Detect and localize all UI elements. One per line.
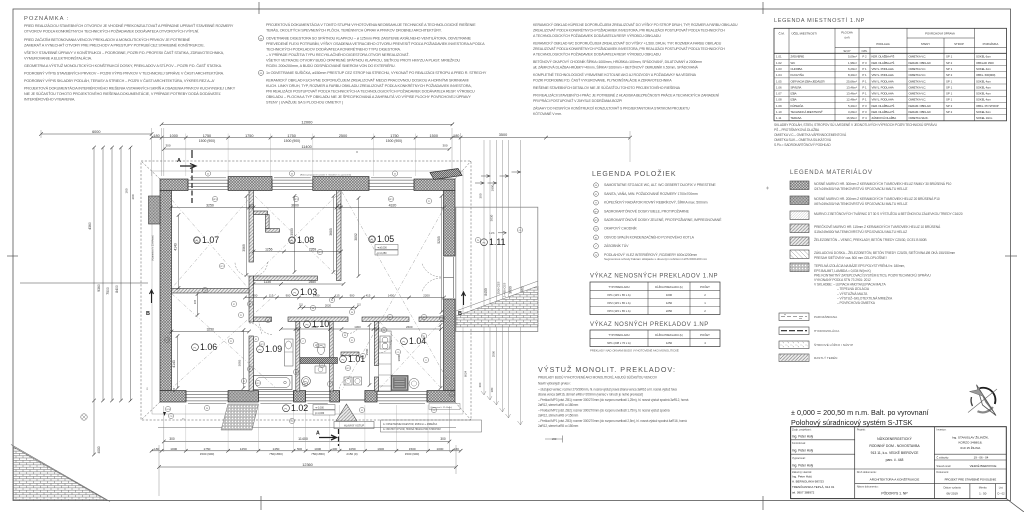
svg-text:300: 300 [165, 143, 170, 147]
svg-text:1250: 1250 [666, 341, 673, 345]
svg-text:3030: 3030 [490, 214, 494, 221]
svg-text:1500 (900): 1500 (900) [284, 139, 300, 143]
svg-text:11400: 11400 [301, 145, 311, 149]
svg-text:P1: P1 [240, 315, 242, 317]
svg-text:2500 CES: 2500 CES [497, 281, 501, 294]
svg-text:PRI REALIZÁCII STAVEBNÝCH PRÁ: PRI REALIZÁCII STAVEBNÝCH PRÁC JE POTREB… [533, 93, 719, 98]
svg-text:D4: D4 [207, 173, 209, 175]
svg-text:D4: D4 [394, 173, 396, 175]
svg-text:4360: 4360 [88, 222, 92, 230]
svg-text:9360: 9360 [97, 284, 101, 292]
svg-text:OMIETKA SILIK.: OMIETKA SILIK. [909, 116, 929, 120]
svg-text:strana venca 3øR16, strmeň øR8: strana venca 3øR16, strmeň øR8 o=200mm (… [538, 393, 643, 397]
svg-text:1050: 1050 [349, 447, 356, 451]
svg-text:115: 115 [193, 299, 197, 304]
svg-text:STENY: STENY [921, 42, 930, 46]
svg-text:D4: D4 [595, 185, 597, 187]
svg-text:D6: D6 [331, 300, 333, 302]
svg-text:2250: 2250 [666, 309, 673, 313]
svg-text:K1: K1 [304, 384, 306, 386]
svg-text:12360: 12360 [302, 463, 313, 467]
svg-text:ZÁDVERIE: ZÁDVERIE [791, 55, 805, 59]
svg-text:OMIETKA V.C.: OMIETKA V.C. [909, 85, 927, 89]
svg-text:3500: 3500 [365, 348, 369, 355]
svg-text:D7: D7 [233, 304, 235, 306]
svg-text:SP 1: SP 1 [946, 98, 953, 102]
svg-text:ZÁKLADOVÁ DOSKA – ŽELEZOBETÓN,: ZÁKLADOVÁ DOSKA – ŽELEZOBETÓN, BETÓN TRI… [814, 250, 955, 255]
svg-text:Projekt:: Projekt: [857, 428, 866, 432]
svg-text:SADROKARTÓNOVÉ DOSKY BIELE, PR: SADROKARTÓNOVÉ DOSKY BIELE, PROTIPOŽIARN… [604, 208, 690, 213]
svg-text:3802: 3802 [354, 233, 358, 241]
svg-text:1.11: 1.11 [489, 237, 506, 247]
svg-text:4000: 4000 [97, 446, 101, 453]
svg-text:ZÁMKOVÁ DLAŽBA: ZÁMKOVÁ DLAŽBA [872, 115, 897, 120]
svg-text:K1: K1 [595, 237, 597, 239]
svg-text:25,66m²: 25,66m² [846, 79, 857, 83]
svg-text:OKAPOVÝ CHODNÍK: OKAPOVÝ CHODNÍK [604, 227, 637, 231]
svg-text:D1: D1 [351, 340, 353, 342]
svg-text:TEPELNÁ IZOLÁCIA NA BÁZE EPS P: TEPELNÁ IZOLÁCIA NA BÁZE EPS POLYSTYRÉNU… [814, 263, 905, 268]
svg-text:16,96m²: 16,96m² [846, 116, 857, 120]
svg-text:B: B [146, 311, 150, 317]
svg-text:ZREALIZOVAŤ PODĽA KONKRÉTNYCH: ZREALIZOVAŤ PODĽA KONKRÉTNYCH POŽIADAVIE… [533, 46, 725, 51]
svg-text:Ing. Peter Holý: Ing. Peter Holý [792, 475, 812, 479]
svg-text:1135: 1135 [264, 280, 271, 284]
svg-text:P1: P1 [291, 240, 293, 242]
svg-text:TYP PREKLADU: TYP PREKLADU [608, 333, 629, 337]
svg-text:parc. č. 448: parc. č. 448 [886, 458, 904, 462]
svg-text:SP2: SP2 [318, 252, 321, 254]
svg-text:180: 180 [154, 447, 159, 451]
svg-text:1250: 1250 [240, 447, 247, 451]
svg-text:7500: 7500 [106, 287, 110, 295]
svg-text:2500: 2500 [491, 350, 495, 357]
svg-text:P 3: P 3 [862, 110, 867, 114]
svg-text:Ing. STANISLAV ŽILINČÍK,: Ing. STANISLAV ŽILINČÍK, [952, 434, 989, 439]
svg-text:1.06: 1.06 [776, 85, 782, 89]
svg-text:115: 115 [269, 294, 274, 298]
svg-text:SKLADBY PODLÁH, STIEN, STROPOV: SKLADBY PODLÁH, STIEN, STROPOV SÚ UVEDEN… [774, 122, 938, 127]
svg-text:P1: P1 [196, 240, 198, 242]
svg-text:PŠ – PROTIŠMYKOVÁ DLAŽBA: PŠ – PROTIŠMYKOVÁ DLAŽBA [774, 127, 820, 132]
svg-text:NOSNÉ MURIVO HR. 200mm Z KERAM: NOSNÉ MURIVO HR. 200mm Z KERAMICKÝCH TVA… [814, 196, 940, 201]
svg-text:ROZM. 200x200mm, A BUDÚ ODSPÁD: ROZM. 200x200mm, A BUDÚ ODSPÁDOVANÉ SMER… [266, 63, 396, 68]
svg-text:VŠETKY VETRACIE OTVORY BUDÚ OP: VŠETKY VETRACIE OTVORY BUDÚ OPATRENÉ SPÄ… [266, 58, 460, 63]
svg-text:5285: 5285 [437, 236, 441, 244]
svg-text:OMIETKA V.C.: OMIETKA V.C. [909, 98, 927, 102]
svg-text:PRIEČKOVÉ MURIVO HR. 115mm Z K: PRIEČKOVÉ MURIVO HR. 115mm Z KERAMICKÝCH… [814, 224, 941, 229]
svg-text:1.08: 1.08 [297, 235, 314, 245]
svg-text:p=-0,250: p=-0,250 [377, 252, 387, 255]
svg-text:ŠTRKOVÉ LÔŽKO / NÁSYP: ŠTRKOVÉ LÔŽKO / NÁSYP [814, 342, 853, 347]
svg-text:LEGENDA POLOŽIEK: LEGENDA POLOŽIEK [592, 169, 676, 178]
svg-text:(Rebrá prepojené kanálmi fr. 3: (Rebrá prepojené kanálmi fr. 33-64mm na … [300, 174, 351, 177]
svg-text:VYKONANÝ PODĽA STN 73 2901: 20: VYKONANÝ PODĽA STN 73 2901: 2012 [814, 278, 871, 282]
svg-text:SP 1: SP 1 [946, 55, 953, 59]
svg-text:POVRCHOVÁ ÚPRAVA: POVRCHOVÁ ÚPRAVA [925, 31, 955, 36]
svg-text:ARCHITEKTÚRA A KONŠTRUKCIE: ARCHITEKTÚRA A KONŠTRUKCIE [870, 476, 920, 481]
svg-text:OMIETKA V.C.: OMIETKA V.C. [909, 67, 927, 71]
svg-text:3083: 3083 [238, 359, 242, 366]
svg-text:1500: 1500 [430, 134, 438, 138]
svg-text:A: A [316, 431, 320, 437]
svg-text:1300: 1300 [377, 447, 384, 451]
svg-text:NÍZKOENERGETICKÝ: NÍZKOENERGETICKÝ [877, 437, 912, 441]
svg-text:Ing. Peter Holý: Ing. Peter Holý [792, 449, 813, 453]
svg-text:1.02: 1.02 [291, 403, 308, 413]
svg-text:6,29m²: 6,29m² [848, 67, 857, 71]
svg-text:P 1: P 1 [862, 79, 867, 83]
svg-text:3069: 3069 [242, 244, 246, 252]
svg-text:PRESAH SIEŤOVINY cca. 500 mm C: PRESAH SIEŤOVINY cca. 500 mm CELOPLOŠNE … [814, 255, 887, 260]
svg-text:P1: P1 [428, 201, 430, 203]
svg-text:SP1: SP1 [594, 211, 598, 213]
svg-text:2øR12, strmeň øR8 o=150mm: 2øR12, strmeň øR8 o=150mm [538, 424, 579, 428]
svg-text:– V PRÍPADE POUŽITIA TYPU RECY: – V PRÍPADE POUŽITIA TYPU RECYKLAČNÉHO D… [266, 52, 410, 57]
svg-text:ÚČEL MIESTNOSTI: ÚČEL MIESTNOSTI [792, 31, 817, 36]
svg-text:Polohový súradnicový systém S: Polohový súradnicový systém S-JTSK [791, 418, 913, 427]
svg-text:SP 1: SP 1 [946, 67, 953, 71]
svg-text:S.P.k.= SADROKARTÓNOVÝ PODHĽAD: S.P.k.= SADROKARTÓNOVÝ PODHĽAD [774, 142, 831, 147]
svg-text:POČET: POČET [700, 284, 710, 289]
svg-text:K1: K1 [315, 345, 317, 347]
svg-text:IZBA: IZBA [791, 98, 797, 102]
svg-text:2150 (0): 2150 (0) [346, 452, 357, 456]
svg-text:Dokument:: Dokument: [936, 470, 949, 474]
svg-text:SPÁLŇA: SPÁLŇA [791, 85, 802, 89]
svg-text:SAMOSTATNE STOJACE WC, ALT. WC: SAMOSTATNE STOJACE WC, ALT. WC GEBERIT D… [604, 183, 716, 187]
svg-text:3500: 3500 [499, 133, 507, 137]
svg-text:750(1650): 750(1650) [269, 452, 283, 456]
svg-text:P 1: P 1 [862, 67, 867, 71]
svg-text:750(1650): 750(1650) [311, 452, 325, 456]
svg-text:D6: D6 [351, 312, 353, 314]
svg-text:PÔDORYS 1. NP: PÔDORYS 1. NP [881, 491, 908, 496]
svg-text:VÝKAZ NOSNÝCH PREKLADOV 1.NP: VÝKAZ NOSNÝCH PREKLADOV 1.NP [590, 321, 709, 328]
svg-text:POČET: POČET [700, 332, 710, 337]
svg-text:4320: 4320 [389, 204, 397, 208]
svg-text:Č.M.: Č.M. [778, 31, 784, 36]
svg-text:1250: 1250 [666, 301, 673, 305]
svg-text:RODINNÝ DOM - NOVOSTAVBA: RODINNÝ DOM - NOVOSTAVBA [869, 444, 920, 448]
svg-text:SP 2: SP 2 [946, 110, 953, 114]
svg-text:K1: K1 [255, 339, 257, 341]
svg-text:SP 1: SP 1 [946, 79, 953, 83]
svg-text:ODVOD SPALÍN KONDENZAČNÉHO PLY: ODVOD SPALÍN KONDENZAČNÉHO PLYNOVÉHO KOT… [604, 234, 695, 239]
svg-text:1.09: 1.09 [265, 344, 282, 354]
svg-text:300: 300 [440, 437, 446, 441]
svg-text:KP2 (115 x 65 x A): KP2 (115 x 65 x A) [607, 301, 630, 305]
svg-text:HLAVNÝ VSTUP: HLAVNÝ VSTUP [344, 424, 364, 428]
svg-text:VŠETKY STAVEBNÉ ÚPRAVY V KONŠT: VŠETKY STAVEBNÉ ÚPRAVY V KONŠTRUKCII – P… [24, 50, 224, 55]
svg-text:SOKEL 4cm: SOKEL 4cm [976, 67, 991, 71]
svg-text:Názov dokumentu :: Názov dokumentu : [857, 485, 880, 489]
svg-text:NP1 (238 x 70 x A): NP1 (238 x 70 x A) [607, 341, 631, 345]
svg-text:D6: D6 [267, 320, 269, 322]
svg-text:SANITA, VAŇA, MIN. POŽADOVANÉ: SANITA, VAŇA, MIN. POŽADOVANÉ ROZMERY 17… [604, 191, 698, 196]
svg-text:VÝKAZ NENOSNÝCH PREKLADOV 1.NP: VÝKAZ NENOSNÝCH PREKLADOV 1.NP [590, 273, 718, 280]
svg-text:1.11: 1.11 [776, 116, 782, 120]
svg-text:SOKEL 10cm: SOKEL 10cm [976, 116, 993, 120]
svg-text:OMIETKA V.C.: OMIETKA V.C. [909, 55, 927, 59]
svg-text:1750: 1750 [203, 134, 211, 138]
svg-text:8,40m²: 8,40m² [848, 73, 857, 77]
svg-text:P 4: P 4 [862, 116, 867, 120]
svg-text:1300: 1300 [354, 325, 361, 329]
svg-text:1.05: 1.05 [776, 79, 782, 83]
svg-text:MURIVO Z BETÓNOVÝCH TVÁRNIC DT: MURIVO Z BETÓNOVÝCH TVÁRNIC DT 30 S VÝST… [814, 211, 963, 216]
svg-text:2600: 2600 [406, 325, 413, 329]
svg-text:Zodp. projektant:: Zodp. projektant: [792, 428, 812, 432]
svg-text:Mierka: Mierka [979, 486, 987, 490]
svg-text:P1: P1 [371, 239, 373, 241]
svg-text:2359: 2359 [309, 248, 317, 252]
svg-text:ZÁSAHY DO NOSNÝCH KONŠTRUKCIÍ: ZÁSAHY DO NOSNÝCH KONŠTRUKCIÍ KONZULTOVA… [533, 106, 690, 111]
svg-text:P 1: P 1 [862, 85, 867, 89]
svg-text:OTVOROV PODĽA KONKRÉTNYCH TECH: OTVOROV PODĽA KONKRÉTNYCH TECHNICKÝCH PO… [24, 29, 199, 34]
svg-text:RASTLÝ TERÉN: RASTLÝ TERÉN [814, 355, 837, 360]
svg-text:1000: 1000 [169, 134, 177, 138]
svg-text:115: 115 [335, 294, 340, 298]
svg-text:8400: 8400 [115, 285, 119, 293]
svg-text:2580: 2580 [309, 280, 317, 284]
svg-text:KÚPEĽŇOVÝ RADIÁTOR ROVNÝ REBRÍ: KÚPEĽŇOVÝ RADIÁTOR ROVNÝ REBRÍKOVÝ, ŠÍRK… [604, 200, 708, 205]
svg-text:D7: D7 [249, 304, 251, 306]
svg-text:SP2: SP2 [256, 383, 259, 385]
svg-text:2020: 2020 [325, 304, 332, 308]
svg-text:STENY ( UVAŽUJE SA S PLOCHOU O: STENY ( UVAŽUJE SA S PLOCHOU OMIETKY ) [266, 100, 344, 105]
svg-text:KERAMICKÝ OBKLAD WC DOPORUČUJE: KERAMICKÝ OBKLAD WC DOPORUČUJEM ZREALIZO… [533, 41, 722, 46]
svg-text:SOKEL 4cm: SOKEL 4cm [976, 85, 991, 89]
svg-text:SP2: SP2 [346, 368, 349, 370]
svg-text:LEGENDA MATERIÁLOV: LEGENDA MATERIÁLOV [790, 169, 873, 176]
svg-text:± 0,000 = 200,50 m n.m. Balt.: ± 0,000 = 200,50 m n.m. Balt. po vyrovna… [791, 408, 929, 417]
svg-text:P 1: P 1 [862, 92, 867, 96]
svg-text:PREKLADY BUDÚ VYHOTOVENÉ AKO M: PREKLADY BUDÚ VYHOTOVENÉ AKO MONOLITICKÉ… [538, 375, 658, 380]
svg-text:3000: 3000 [290, 228, 294, 236]
svg-text:3600: 3600 [291, 204, 299, 208]
svg-text:POZNÁMKA :: POZNÁMKA : [24, 15, 69, 22]
svg-text:1750: 1750 [245, 134, 253, 138]
svg-text:OMIETKA V.C.: OMIETKA V.C. [909, 73, 927, 77]
svg-text:1500: 1500 [409, 447, 416, 451]
svg-text:180: 180 [453, 134, 459, 138]
svg-text:VINYL. PODLAHA: VINYL. PODLAHA [872, 85, 894, 89]
svg-text:B: B [458, 311, 462, 317]
svg-text:STROP: STROP [954, 42, 964, 46]
svg-text:KÓTOVANÉ V mm.: KÓTOVANÉ V mm. [533, 111, 562, 116]
svg-text:VYMUROVANIE A ELEKTROINŠTALÁCI: VYMUROVANIE A ELEKTROINŠTALÁCIA. [24, 56, 92, 61]
svg-text:115: 115 [172, 387, 176, 392]
svg-text:▼-0,030: ▼-0,030 [315, 407, 325, 410]
svg-text:A: A [177, 158, 181, 164]
svg-text:A TECHNOLOGICKÝCH POŽIADAVIEK: A TECHNOLOGICKÝCH POŽIADAVIEK DODÁVATEĽA… [533, 52, 661, 57]
svg-text:/497x249x200/ NA TENKOVRSTVÚ S: /497x249x200/ NA TENKOVRSTVÚ SPOJOVACIU … [814, 201, 907, 206]
svg-text:ZAMERAŤ A VYNECHAŤ OTVORY PRE: ZAMERAŤ A VYNECHAŤ OTVORY PRE PRECHODY A… [24, 43, 205, 48]
svg-text:OMIETKA V.C.: OMIETKA V.C. [909, 79, 927, 83]
svg-text:P 1: P 1 [862, 73, 867, 77]
svg-text:ŽELEZOBETÓN – VENEC, PREKLADY,: ŽELEZOBETÓN – VENEC, PREKLADY, BETÓN TRI… [814, 237, 927, 242]
svg-text:PRE KONTAKTNÝ ZATEPĽOVACÍ SYST: PRE KONTAKTNÝ ZATEPĽOVACÍ SYSTÉM ETICS, … [814, 272, 931, 277]
svg-text:D2: D2 [389, 317, 391, 319]
svg-text:19 - 06 - 04: 19 - 06 - 04 [974, 456, 989, 460]
svg-text:KP3 (115 x 65 x A): KP3 (115 x 65 x A) [607, 309, 630, 313]
svg-text:Zákazný vlastník:: Zákazný vlastník: [792, 470, 812, 474]
svg-text:VEĽKÉ BIEROVCE: VEĽKÉ BIEROVCE [970, 463, 997, 468]
svg-text:12000: 12000 [301, 120, 313, 125]
svg-text:913 11, k.u. VEĽKÉ BIEROVCE: 913 11, k.u. VEĽKÉ BIEROVCE [871, 450, 920, 455]
svg-text:1000: 1000 [314, 447, 321, 451]
svg-text:1 : 50: 1 : 50 [979, 492, 987, 496]
svg-text:P 3: P 3 [862, 61, 867, 65]
svg-text:PAROZÁBRANA: PAROZÁBRANA [814, 315, 838, 319]
svg-text:KORZO 3468/18,: KORZO 3468/18, [958, 441, 982, 445]
svg-text:8400: 8400 [484, 288, 488, 296]
svg-text:POZRI PODROBNE P.D. ČASŤ VYKUR: POZRI PODROBNE P.D. ČASŤ VYKUROVANIE, PL… [533, 78, 672, 83]
svg-text:900: 900 [286, 294, 291, 298]
svg-text:Ing. Peter Holý: Ing. Peter Holý [792, 435, 813, 439]
svg-text:1x ODVETRANIE DIGESTOR, Ø150mm: 1x ODVETRANIE DIGESTOR, Ø150mm + MRIEŽKA [383, 423, 438, 426]
svg-text:EPS BAUMIT, LAMBDA = 0,034 W/(: EPS BAUMIT, LAMBDA = 0,034 W/(m.K) [814, 269, 871, 273]
svg-text:– stužujúci veniec: rozmer 27: – stužujúci veniec: rozmer 270/300mm, hl… [538, 388, 677, 392]
svg-text:200: 200 [131, 194, 135, 199]
svg-text:D2: D2 [361, 410, 363, 412]
svg-text:1000: 1000 [666, 293, 673, 297]
svg-text:VÝSTUŽ MONOLIT. PREKLADOV:: VÝSTUŽ MONOLIT. PREKLADOV: [538, 365, 676, 374]
svg-text:D - 02: D - 02 [997, 492, 1005, 496]
svg-text:– Preklad MP2 (otst. ZB2): ro: – Preklad MP2 (otst. ZB2): rozmer 300/27… [538, 409, 670, 413]
svg-text:2øR12, strmeň øR8 o=180mm: 2øR12, strmeň øR8 o=180mm [538, 403, 579, 407]
svg-text:VINYL. PODLAHA: VINYL. PODLAHA [872, 73, 894, 77]
svg-text:1000: 1000 [437, 447, 444, 451]
svg-text:▼±0,000: ▼±0,000 [377, 247, 387, 250]
svg-text:KP1 (115 x 65 x A): KP1 (115 x 65 x A) [607, 293, 630, 297]
svg-text:Návrh výbraných prvkov :: Návrh výbraných prvkov : [538, 382, 571, 386]
svg-text:CHODBA: CHODBA [791, 67, 803, 71]
svg-text:P 1: P 1 [862, 98, 867, 102]
svg-text:PRED ZAČATÍM BETONOVANIA VENCO: PRED ZAČATÍM BETONOVANIA VENCOV PREKLADO… [24, 37, 191, 42]
svg-text:1800: 1800 [491, 184, 495, 191]
svg-text:13,46m²: 13,46m² [846, 85, 857, 89]
svg-text:6024: 6024 [464, 370, 468, 377]
svg-text:D4: D4 [344, 335, 346, 337]
svg-text:– VÝSTUŽ–SKLOTEXTILNÁ MRIEŽKA: – VÝSTUŽ–SKLOTEXTILNÁ MRIEŽKA [837, 295, 893, 300]
svg-text:/115x249x500/ NA TENKOVRSTVÚ S: /115x249x500/ NA TENKOVRSTVÚ SPOJOVACIU … [814, 229, 907, 234]
svg-text:(Kamenivo fr. 32-44mm): (Kamenivo fr. 32-44mm) [431, 407, 453, 409]
svg-text:115: 115 [248, 204, 254, 208]
svg-text:9000: 9000 [509, 286, 513, 294]
svg-text:P 2: P 2 [862, 55, 867, 59]
svg-text:NIE JE SÚČASŤOU TOHOTO PROJEKT: NIE JE SÚČASŤOU TOHOTO PROJEKTOVÉHO RIEŠ… [24, 91, 221, 96]
svg-text:SOKEL 4cm: SOKEL 4cm [976, 98, 991, 102]
svg-text:SP 1: SP 1 [946, 92, 953, 96]
svg-text:D1: D1 [595, 194, 597, 196]
svg-text:TECHNICKÝCH PODKLADOV DODÁVATE: TECHNICKÝCH PODKLADOV DODÁVATEĽA KONKRÉT… [266, 47, 401, 52]
svg-text:– Preklad MP3 (otst. ZB1): ro: – Preklad MP3 (otst. ZB1): rozmer 300/27… [538, 398, 689, 402]
svg-text:1x ODVETRANIE SUŠIČKA, ø150mm: 1x ODVETRANIE SUŠIČKA, ø150mm PRESTUP CE… [266, 70, 487, 75]
svg-text:PODROBNÝ VÝPIS SKLADBY PODLÁH,: PODROBNÝ VÝPIS SKLADBY PODLÁH, TERASY A … [24, 78, 215, 83]
svg-text:1.03: 1.03 [776, 67, 782, 71]
svg-text:1.03: 1.03 [300, 287, 317, 297]
svg-text:1000: 1000 [170, 447, 177, 451]
svg-text:800: 800 [253, 294, 258, 298]
svg-text:92,07: 92,07 [844, 49, 851, 53]
svg-text:11400: 11400 [298, 437, 308, 441]
svg-text:VINYL. PODLAHA: VINYL. PODLAHA [872, 98, 894, 102]
svg-text:1.08: 1.08 [776, 98, 782, 102]
svg-text:NOSNÉ MURIVO HR. 300mm Z KERAM: NOSNÉ MURIVO HR. 300mm Z KERAMICKÝCH TVA… [814, 181, 952, 186]
svg-text:010 15 ŽILINA: 010 15 ŽILINA [960, 445, 981, 450]
svg-text:OBÝVACIA IZBA+JEDÁLEŇ: OBÝVACIA IZBA+JEDÁLEŇ [791, 79, 825, 83]
svg-text:(Kamenivo fr. 33-64mm): (Kamenivo fr. 33-64mm) [152, 235, 155, 261]
svg-text:SP 2: SP 2 [946, 73, 953, 77]
svg-text:1450: 1450 [273, 447, 280, 451]
svg-text:PODLAHOVÝ VLEZ INTERIÉROVÝ, RO: PODLAHOVÝ VLEZ INTERIÉROVÝ, ROZMERY 600x… [604, 252, 697, 257]
svg-text:SP1: SP1 [165, 340, 168, 342]
svg-text:POZNÁMKA: POZNÁMKA [983, 42, 999, 46]
svg-text:1x VRCHNÝ OTVOR, HORNÁ HRANA P: 1x VRCHNÝ OTVOR, HORNÁ HRANA POD STROPOM [383, 428, 441, 431]
svg-text:180: 180 [125, 188, 129, 193]
svg-text:SP2: SP2 [594, 220, 598, 222]
svg-text:KERAM. OBKLAD: KERAM. OBKLAD [909, 104, 931, 108]
svg-text:LEGENDA MIESTNOSTÍ 1.NP: LEGENDA MIESTNOSTÍ 1.NP [774, 17, 865, 24]
svg-text:1.01: 1.01 [776, 55, 782, 59]
svg-text:5,09m²: 5,09m² [848, 55, 857, 59]
svg-text:KOMPLETNÉ TECHNOLOGICKÉ VYBAVE: KOMPLETNÉ TECHNOLOGICKÉ VYBAVENIE KOTOLN… [533, 72, 697, 77]
svg-text:KUCH. LINKY DRUH, TYP, ROZMER: KUCH. LINKY DRUH, TYP, ROZMER A FARBU OB… [266, 83, 472, 88]
svg-text:D8: D8 [312, 308, 314, 310]
svg-text:180: 180 [153, 134, 159, 138]
svg-text:3,29m²: 3,29m² [848, 110, 857, 114]
svg-text:300: 300 [169, 437, 175, 441]
svg-text:6000: 6000 [92, 130, 100, 134]
svg-text:P 3: P 3 [862, 104, 867, 108]
svg-text:tel. 0907 388972: tel. 0907 388972 [792, 490, 815, 494]
svg-text:1.05: 1.05 [377, 234, 394, 244]
svg-text:/247x249x300/ NA TENKOVRSTVÚ S: /247x249x300/ NA TENKOVRSTVÚ SPOJOVACIU … [814, 186, 907, 191]
svg-text:ZÁSOBNÍK TÚV: ZÁSOBNÍK TÚV [604, 244, 629, 248]
svg-text:PROJEKTOVÁ DOKUMENTÁCIA INTERI: PROJEKTOVÁ DOKUMENTÁCIA INTERIÉROVÉHO RI… [24, 86, 236, 91]
svg-text:2500: 2500 [339, 134, 347, 138]
svg-text:– TEPELNÁ IZOLÁCIA: – TEPELNÁ IZOLÁCIA [837, 287, 870, 291]
svg-text:KER. DLAŽBA+PŠ: KER. DLAŽBA+PŠ [872, 60, 895, 65]
svg-text:1.10: 1.10 [312, 319, 329, 329]
svg-text:MP3: MP3 [213, 199, 217, 201]
svg-text:P2: P2 [362, 356, 364, 358]
svg-text:SP1: SP1 [220, 266, 223, 268]
svg-text:alt. ZÁMKOVÁ DLAŽBA HRÚBKY=40m: alt. ZÁMKOVÁ DLAŽBA HRÚBKY=40mm, ŠÍRKA=1… [533, 65, 698, 70]
svg-text:PREKLADY NAD OKNAMI BUDÚ VYHOT: PREKLADY NAD OKNAMI BUDÚ VYHOTOVENÉ AKO … [590, 348, 679, 353]
svg-text:OZN.: OZN. [862, 50, 868, 53]
svg-text:WC: WC [791, 61, 796, 65]
svg-text:P1: P1 [230, 341, 232, 343]
svg-text:5,40m²: 5,40m² [848, 104, 857, 108]
svg-text:SOKEL 4cm: SOKEL 4cm [976, 79, 991, 83]
svg-text:13,46m²: 13,46m² [846, 92, 857, 96]
svg-text:PREVEDENÉ FLEXI POTRUBÍM, VÝŠK: PREVEDENÉ FLEXI POTRUBÍM, VÝŠKY OSADENIA… [266, 41, 485, 46]
svg-text:3250: 3250 [206, 204, 214, 208]
svg-text:1.04: 1.04 [776, 73, 782, 77]
svg-text:Investor:: Investor: [936, 428, 946, 432]
svg-text:MP1: MP1 [389, 199, 393, 201]
svg-text:180: 180 [490, 387, 494, 392]
svg-text:PRED REALIZÁCIOU STAVEBNÝCH OT: PRED REALIZÁCIOU STAVEBNÝCH OTVOROV JE V… [24, 23, 234, 28]
svg-text:OMIETKA SLIK.– OMIETKA SILIKÁT: OMIETKA SLIK.– OMIETKA SILIKÁTOVÁ [774, 138, 832, 142]
svg-text:OBKLADU – PLOCHA A TYP OBKLADU: OBKLADU – PLOCHA A TYP OBKLADU NIE JE ŠP… [266, 94, 471, 99]
svg-text:(m²): (m²) [844, 36, 849, 40]
svg-text:1500 (900): 1500 (900) [405, 452, 420, 456]
svg-text:KUCHYŇA: KUCHYŇA [791, 73, 804, 77]
